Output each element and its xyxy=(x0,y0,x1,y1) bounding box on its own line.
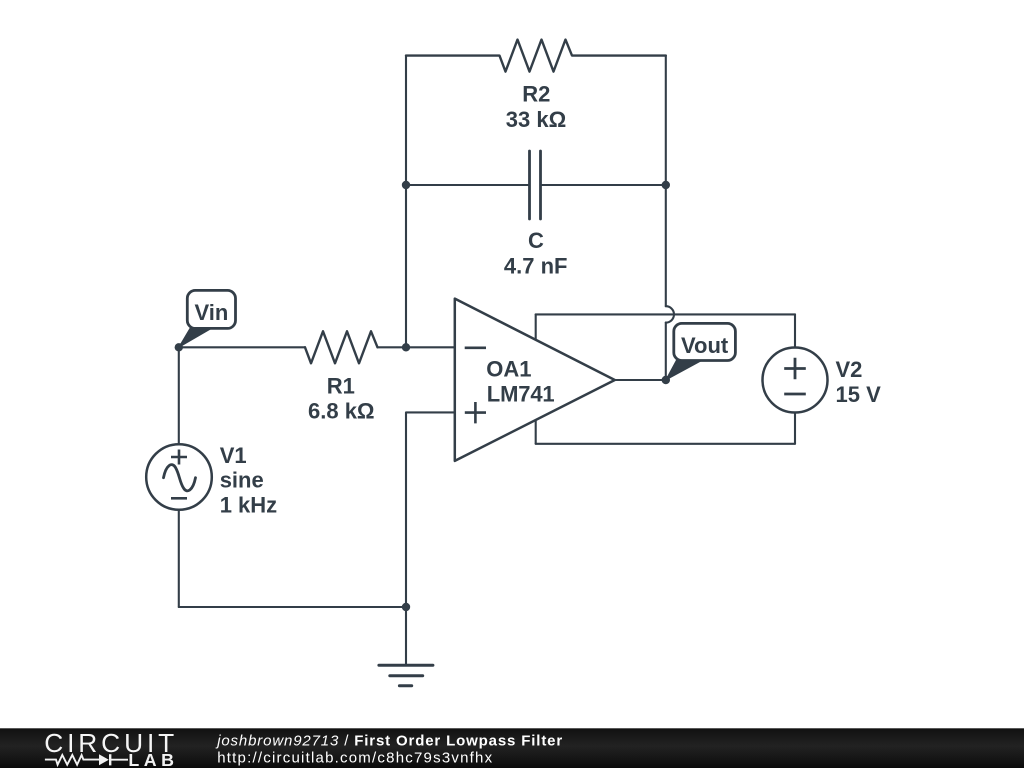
wire ground run horizontal xyxy=(179,606,406,608)
wire right vertical (cap row down to hop) xyxy=(665,185,667,306)
V1 minus sign xyxy=(171,497,187,500)
V2 minus sign xyxy=(784,393,806,396)
node junction dot (feedback right / cap row) xyxy=(662,181,670,189)
svg-text:http://circuitlab.com/c8hc79s3: http://circuitlab.com/c8hc79s3vnfhx xyxy=(217,750,493,767)
wire Vin node down to V1 xyxy=(178,347,180,444)
flag Vout box xyxy=(674,323,736,360)
svg-text:R1: R1 xyxy=(327,374,355,399)
flag Vin box xyxy=(187,290,235,328)
wire V2 bottom xyxy=(794,413,796,444)
wire right vertical upper (top wire to cap row) xyxy=(665,56,667,185)
op-amp V- pin xyxy=(535,421,537,444)
wire Vin to R1 xyxy=(179,346,305,348)
node junction dot (feedback left / cap row) xyxy=(402,181,410,189)
node ground junction dot xyxy=(402,603,410,611)
svg-text:OA1: OA1 xyxy=(486,357,531,382)
resistor R1 xyxy=(305,331,378,363)
op-amp V+ pin xyxy=(535,314,537,339)
op-amp OA1 triangle xyxy=(455,299,615,461)
wire V2 top xyxy=(794,314,796,347)
wire right vertical lower (hop to output node) xyxy=(665,323,667,380)
label V2 15 V xyxy=(836,357,882,407)
label V1 sine 1 kHz xyxy=(220,443,277,518)
svg-text:6.8 kΩ: 6.8 kΩ xyxy=(308,399,375,424)
svg-text:Vin: Vin xyxy=(194,300,228,325)
V2 plus sign xyxy=(784,358,806,380)
svg-text:sine: sine xyxy=(220,468,264,493)
svg-text:15 V: 15 V xyxy=(836,382,882,407)
svg-text:LM741: LM741 xyxy=(487,381,555,406)
voltage source V1 circle xyxy=(146,444,212,510)
wire supply rail top xyxy=(536,313,795,315)
svg-text:LAB: LAB xyxy=(128,750,178,768)
flag Vout tail xyxy=(666,361,702,381)
logo resistor squiggle xyxy=(45,755,99,765)
V1 plus sign xyxy=(171,450,187,465)
svg-text:V2: V2 xyxy=(836,357,863,382)
wire V1 bottom down xyxy=(178,510,180,608)
wire supply rail bottom xyxy=(536,443,795,445)
wire hop over supply rail xyxy=(666,306,674,322)
svg-text:R2: R2 xyxy=(522,81,550,106)
label R1 value xyxy=(308,374,375,424)
wire top-left vertical (feedback loop left side) xyxy=(405,56,407,348)
svg-text:C: C xyxy=(528,228,544,253)
wire capacitor row left xyxy=(406,184,530,186)
label R2 value xyxy=(506,81,566,132)
svg-text:V1: V1 xyxy=(220,443,247,468)
footer bar xyxy=(0,728,1024,768)
wire ground stub xyxy=(405,607,407,665)
V1 sine wave xyxy=(164,465,196,491)
label C value xyxy=(504,228,568,278)
svg-text:Vout: Vout xyxy=(681,333,729,358)
flag Vin tail xyxy=(179,328,212,347)
svg-text:4.7 nF: 4.7 nF xyxy=(504,253,568,278)
wire R1 to op-amp inverting input xyxy=(378,346,455,348)
ground symbol xyxy=(379,665,433,686)
op-amp noninverting input plus sign xyxy=(465,402,486,423)
op-amp inverting input minus sign xyxy=(465,346,486,349)
wire capacitor row right xyxy=(541,184,666,186)
capacitor C plates xyxy=(530,151,541,219)
svg-text:joshbrown92713 / First Order L: joshbrown92713 / First Order Lowpass Fil… xyxy=(215,732,563,749)
svg-text:1 kHz: 1 kHz xyxy=(220,493,277,518)
node Vout junction dot (op-amp output) xyxy=(662,376,670,384)
wire op-amp output to node xyxy=(615,379,666,381)
resistor R2 (in top wire) xyxy=(406,40,666,72)
node Vin junction dot xyxy=(175,343,183,351)
svg-text:33 kΩ: 33 kΩ xyxy=(506,107,566,132)
logo diode xyxy=(99,754,109,765)
voltage source V2 circle xyxy=(763,348,828,413)
label OA1 LM741 xyxy=(486,357,554,407)
node junction dot (R1 / feedback / op-amp input) xyxy=(402,343,410,351)
wire op-amp noninverting input xyxy=(406,412,455,607)
